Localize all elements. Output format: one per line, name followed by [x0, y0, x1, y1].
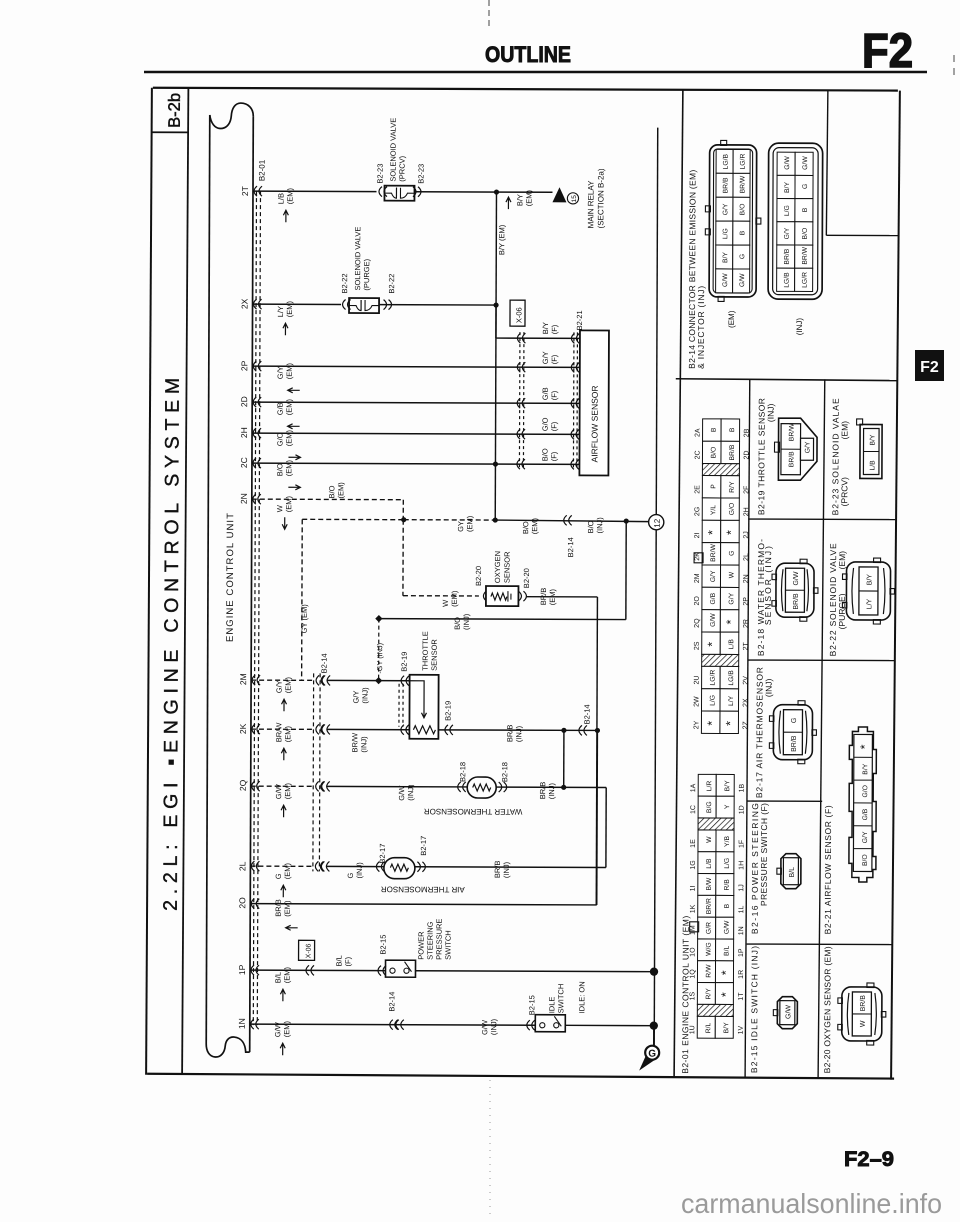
svg-text:2P: 2P: [743, 597, 750, 606]
junctions on main vertical: [650, 967, 658, 975]
svg-text:*: *: [723, 721, 737, 726]
wire main power vertical: [656, 128, 657, 515]
svg-text:OXYGEN: OXYGEN: [493, 551, 502, 583]
svg-text:G: G: [729, 551, 736, 556]
svg-text:W/G: W/G: [706, 942, 713, 956]
connector chevron B2-14: [564, 515, 572, 525]
svg-text:(EM): (EM): [285, 301, 294, 318]
svg-text:(EM): (EM): [283, 725, 292, 742]
svg-text:G/B: G/B: [541, 387, 550, 400]
svg-text:(INJ): (INJ): [361, 687, 370, 704]
wire B/Y (F) branch to airflow sensor: [495, 305, 497, 338]
svg-text:B/O: B/O: [275, 463, 284, 476]
chevron B2-19 on 2M: [401, 676, 409, 686]
svg-text:(F): (F): [550, 324, 559, 334]
svg-text:(PRCV): (PRCV): [398, 155, 407, 181]
svg-text:2M: 2M: [238, 673, 248, 685]
svg-text:B/Y: B/Y: [515, 194, 524, 206]
solenoid valve B2-23 PRCV symbol: [384, 186, 414, 201]
wire BR/B vertical: [596, 597, 597, 905]
svg-text:B/G: B/G: [706, 801, 713, 813]
wire 2Q dashed: [251, 785, 313, 787]
svg-text:*: *: [705, 642, 719, 647]
connector B2-19 boundary dashed lines: [398, 684, 400, 727]
svg-text:B2-23: B2-23: [417, 164, 426, 184]
junction on 2Q: [561, 785, 566, 790]
wire B/Y (EM) to main relay: [414, 191, 552, 194]
svg-text:BR/W: BR/W: [802, 246, 809, 264]
svg-text:B2-21: B2-21: [575, 310, 584, 330]
svg-text:(EM): (EM): [283, 782, 292, 799]
svg-text:(F): (F): [344, 956, 353, 966]
svg-text:G/Y: G/Y: [541, 351, 550, 364]
svg-text:1R: 1R: [738, 970, 745, 979]
chevron B2-15 on 1P: [378, 966, 386, 976]
svg-text:BR/W: BR/W: [710, 543, 717, 561]
svg-text:BR/B: BR/B: [729, 444, 736, 460]
svg-text:(EM): (EM): [450, 590, 459, 607]
chevrons B2-14 on 2Q: [316, 781, 324, 791]
svg-text:B2-14: B2-14: [387, 992, 396, 1012]
svg-text:B/Y: B/Y: [724, 780, 731, 791]
svg-text:G/B: G/B: [710, 592, 717, 604]
chevron and label B2-19 right: [445, 725, 453, 735]
circle 15: [567, 193, 578, 204]
svg-text:MAIN RELAY: MAIN RELAY: [586, 180, 595, 229]
svg-text:B2-20: B2-20: [474, 566, 483, 586]
svg-text:SENSOR: SENSOR: [502, 551, 511, 583]
svg-text:2F: 2F: [743, 486, 750, 494]
wire BR/B link 2K-2Q: [563, 730, 565, 787]
svg-text:BR/W: BR/W: [274, 722, 283, 743]
svg-text:(INJ): (INJ): [359, 736, 368, 753]
connector B2-21 pinout: [849, 727, 877, 882]
svg-text:B/O: B/O: [862, 854, 869, 866]
chevrons B2-14 on 2K: [316, 724, 324, 734]
svg-text:B/Y (EM): B/Y (EM): [497, 224, 506, 255]
svg-text:Y/L: Y/L: [710, 505, 717, 515]
svg-text:BR/W: BR/W: [350, 732, 359, 753]
resistor in water thermosensor: [473, 784, 491, 791]
svg-text:G/W: G/W: [480, 1019, 489, 1035]
svg-text:15: 15: [571, 195, 578, 203]
svg-text:B: B: [729, 427, 736, 432]
circle 12 junction: [649, 515, 664, 530]
svg-text:2O: 2O: [694, 596, 701, 606]
svg-text:B/Y: B/Y: [722, 252, 729, 263]
svg-text:2E: 2E: [694, 485, 701, 494]
svg-text:B2-14: B2-14: [320, 653, 329, 673]
svg-text:12: 12: [653, 518, 662, 527]
svg-text:G/Y: G/Y: [352, 691, 361, 704]
svg-text:LG/R: LG/R: [710, 670, 717, 686]
svg-text:G/Y: G/Y: [710, 570, 717, 582]
svg-text:G/Y: G/Y: [728, 592, 735, 604]
svg-text:*: *: [705, 721, 719, 726]
svg-text:B2-19: B2-19: [400, 652, 409, 672]
wire 2T to solenoid: [253, 190, 376, 192]
wire GY (EM) dashed vertical: [301, 519, 304, 680]
chevron and label B2-18 right: [499, 782, 507, 792]
svg-text:L/G: L/G: [710, 695, 717, 706]
wire B/O to circle 12: [494, 520, 649, 522]
wire 2O: [250, 904, 596, 905]
svg-text:(INJ): (INJ): [547, 783, 556, 800]
svg-text:2A: 2A: [695, 428, 702, 437]
svg-text:LG/R: LG/R: [802, 272, 809, 288]
svg-text:POWER: POWER: [417, 931, 426, 960]
svg-text:1J: 1J: [738, 884, 745, 891]
svg-text:1A: 1A: [690, 783, 697, 792]
wire G/W (INJ): [326, 785, 467, 788]
connector boundary dashed lines at airflow sensor: [518, 332, 521, 470]
chevron and label B2-14 on 2K: [579, 725, 587, 735]
svg-text:WATER THERMOSENSOR: WATER THERMOSENSOR: [424, 807, 523, 816]
svg-text:(EM): (EM): [282, 1020, 291, 1037]
svg-text:1Q: 1Q: [689, 969, 696, 979]
svg-text:(INJ): (INJ): [514, 725, 523, 742]
oxygen sensor B2-20 symbol: [486, 586, 519, 606]
svg-text:GY (EM): GY (EM): [300, 604, 309, 634]
svg-text:G/R: G/R: [706, 922, 713, 934]
svg-text:X-06: X-06: [514, 307, 523, 323]
svg-text:2S: 2S: [694, 641, 701, 650]
junction 2K b: [595, 728, 600, 733]
svg-text:BR/B: BR/B: [722, 177, 729, 193]
svg-text:-GY (INJ): -GY (INJ): [375, 643, 384, 674]
svg-text:2X: 2X: [240, 298, 250, 309]
svg-text:2Q: 2Q: [694, 618, 701, 628]
wire 1N: [250, 1024, 535, 1025]
connector B2-01 pin table 1A-1V with pin numbers: [698, 774, 716, 796]
power steering pressure switch B2-16 symbol: [385, 960, 415, 977]
svg-text:G/W: G/W: [397, 785, 406, 801]
wire 2M dashed: [251, 679, 313, 681]
resistor in air thermosensor: [390, 864, 408, 871]
svg-text:B2-21 AIRFLOW SENSOR (F): B2-21 AIRFLOW SENSOR (F): [823, 805, 833, 934]
connector chevron B2-22 right: [384, 300, 392, 310]
svg-text:B: B: [802, 207, 809, 212]
wire 1P to main vertical: [415, 970, 653, 973]
svg-text:BR/B: BR/B: [538, 782, 547, 800]
svg-text:B/Y: B/Y: [541, 322, 550, 334]
connector B2-18 pinout: [776, 563, 814, 617]
svg-text:1M: 1M: [690, 925, 697, 935]
wire GY (INJ) dashed: [378, 619, 380, 681]
svg-text:1B: 1B: [739, 784, 746, 793]
svg-text:L/B: L/B: [728, 639, 735, 650]
svg-text:BR/B: BR/B: [784, 248, 791, 264]
chevrons B2-14 on 1N: [390, 1020, 398, 1030]
wire B/O (INJ) vertical: [625, 521, 627, 619]
svg-text:B/O: B/O: [586, 520, 595, 533]
svg-text:THROTTLE: THROTTLE: [421, 631, 430, 671]
svg-text:G/Y: G/Y: [276, 366, 285, 379]
svg-text:(INJ): (INJ): [406, 784, 415, 801]
svg-text:G: G: [346, 872, 355, 878]
svg-text:carmanualsonline.info: carmanualsonline.info: [681, 1188, 942, 1219]
svg-text:2Z: 2Z: [742, 720, 749, 729]
svg-text:G/O: G/O: [541, 417, 550, 431]
svg-text:G/W: G/W: [724, 920, 731, 934]
junction diamond 2: [375, 677, 382, 684]
svg-text:LG/R: LG/R: [740, 154, 747, 170]
wire 2X to solenoid: [253, 303, 341, 305]
svg-text:2N: 2N: [743, 574, 750, 583]
svg-text:BR/B: BR/B: [493, 861, 502, 879]
svg-text:1S: 1S: [689, 992, 696, 1001]
svg-text:(SECTION B-2a): (SECTION B-2a): [596, 168, 605, 228]
svg-text:(F): (F): [550, 390, 559, 400]
svg-text:B/Y: B/Y: [862, 763, 869, 774]
svg-text:B2-14: B2-14: [566, 537, 575, 557]
svg-text:L/R: L/R: [706, 781, 713, 792]
svg-text:2Y: 2Y: [693, 720, 700, 729]
svg-text:STEERING: STEERING: [426, 921, 435, 960]
svg-text:B/O: B/O: [521, 521, 530, 534]
svg-text:IDLE: ON: IDLE: ON: [577, 981, 586, 1013]
svg-text:*: *: [858, 744, 872, 749]
svg-text:2T: 2T: [743, 641, 750, 650]
connector B2-23 pinout: [860, 424, 882, 478]
wire W (EM) dashed to oxygen sensor: [402, 520, 404, 596]
svg-text:(EM): (EM): [530, 517, 539, 534]
svg-text:(EM): (EM): [284, 460, 293, 477]
svg-text:G/W: G/W: [710, 613, 717, 627]
svg-text:*: *: [724, 530, 738, 535]
svg-text:BR/B: BR/B: [505, 725, 514, 743]
chevron and label B2-17 left: [376, 862, 384, 872]
svg-text:2B: 2B: [744, 428, 751, 437]
svg-text:(F): (F): [549, 451, 558, 461]
svg-text:SENSOR: SENSOR: [430, 639, 439, 671]
svg-text:B/L: B/L: [724, 946, 731, 956]
svg-text:1P: 1P: [738, 948, 745, 957]
svg-text:SWITCH: SWITCH: [444, 930, 453, 960]
svg-text:(EM): (EM): [285, 399, 294, 416]
chevron X-06 on 1P: [306, 965, 314, 975]
svg-text:LG/B: LG/B: [723, 153, 730, 169]
svg-text:1V: 1V: [738, 1026, 745, 1035]
connector B2-15 pinout: [777, 997, 797, 1029]
svg-text:R/Y: R/Y: [729, 481, 736, 493]
connector chevron B2-23 right: [413, 187, 421, 197]
svg-text:AIR THERMOSENSOR: AIR THERMOSENSOR: [381, 885, 465, 894]
svg-text:F2: F2: [920, 359, 939, 376]
svg-text:B2-22: B2-22: [340, 273, 349, 293]
svg-text:B2-17: B2-17: [378, 844, 387, 864]
svg-text:B2-01: B2-01: [258, 159, 267, 181]
svg-text:B2-19: B2-19: [443, 701, 452, 721]
svg-text:(EM): (EM): [282, 966, 291, 983]
svg-text:(EM): (EM): [284, 676, 293, 693]
svg-text:1G: 1G: [690, 860, 697, 869]
svg-text:G/Y: G/Y: [804, 441, 811, 453]
svg-text:L/Y: L/Y: [866, 598, 873, 609]
solenoid valve B2-22 PURGE symbol: [349, 298, 379, 313]
chevron and label B2-17 right: [417, 862, 425, 872]
svg-text:*: *: [724, 619, 738, 624]
connector B2-14 (EM) pinout table: [709, 145, 757, 297]
svg-text:(EM): (EM): [285, 430, 294, 447]
svg-text:W: W: [441, 599, 450, 607]
svg-text:(INJ): (INJ): [795, 318, 804, 336]
chevron and label B2-18 left: [458, 782, 466, 792]
wire BR/B (EM): [526, 596, 597, 598]
svg-text:1I: 1I: [690, 886, 697, 892]
svg-text:B2-18: B2-18: [458, 762, 467, 782]
svg-text:W: W: [706, 836, 713, 843]
svg-text:B/Y: B/Y: [866, 574, 873, 586]
svg-text:(EM): (EM): [524, 189, 533, 206]
svg-text:(EM): (EM): [285, 188, 294, 205]
wire G (INJ): [326, 865, 384, 867]
svg-text:W: W: [275, 504, 284, 512]
connector B2-14 boundary dashed lines: [312, 673, 315, 871]
svg-text:AIRFLOW SENSOR: AIRFLOW SENSOR: [589, 385, 599, 462]
wire main vertical lower: [654, 530, 656, 1047]
svg-text:1H: 1H: [738, 861, 745, 870]
svg-text:L/G: L/G: [724, 858, 731, 869]
svg-text:(EM): (EM): [727, 310, 736, 328]
svg-text:B2-14: B2-14: [582, 704, 591, 724]
svg-text:BR/R: BR/R: [706, 898, 713, 914]
wire 2K dashed: [251, 728, 313, 730]
svg-text:IDLE: IDLE: [547, 997, 556, 1014]
svg-text:G/Y: G/Y: [722, 203, 729, 215]
wire BR/B link 2Q-2L: [605, 787, 607, 867]
svg-text:2U: 2U: [694, 676, 701, 685]
svg-text:G/Y: G/Y: [275, 680, 284, 693]
svg-text:L/G: L/G: [784, 205, 791, 216]
svg-text:(EM): (EM): [336, 482, 345, 499]
svg-text:L/B: L/B: [706, 858, 713, 869]
svg-text:1U: 1U: [689, 1025, 696, 1034]
svg-text:PRESSURE SWITCH (F): PRESSURE SWITCH (F): [759, 803, 769, 906]
svg-text:2C: 2C: [239, 457, 249, 468]
svg-text:1T: 1T: [738, 992, 745, 1001]
svg-text:G/B: G/B: [276, 402, 285, 415]
svg-text:GY: GY: [456, 521, 465, 532]
svg-text:G/O: G/O: [276, 432, 285, 446]
connector B2-19 throttle sensor pinout: [778, 418, 817, 480]
svg-text:(F): (F): [550, 421, 559, 431]
wire G/Y (INJ): [327, 679, 410, 681]
water thermosensor B2-18 symbol: [467, 777, 496, 798]
svg-text:B/L: B/L: [789, 867, 796, 878]
svg-text:1C: 1C: [690, 805, 697, 814]
svg-text:2L: 2L: [237, 861, 247, 871]
svg-text:BR/B: BR/B: [791, 735, 798, 752]
svg-text:1O: 1O: [690, 947, 697, 957]
svg-text:B2-22: B2-22: [387, 274, 396, 294]
svg-text:(EM): (EM): [840, 421, 850, 440]
svg-text:B/O: B/O: [739, 204, 746, 216]
ground G symbol: [639, 1053, 655, 1071]
svg-text:X-06: X-06: [306, 943, 313, 958]
svg-text:2Q: 2Q: [238, 779, 248, 791]
wire B/Y (EM) vertical: [495, 192, 496, 520]
chevrons B2-14 on 2M: [316, 675, 324, 685]
wire 1P: [250, 969, 385, 972]
connector B2-14 (INJ) pinout table: [768, 143, 823, 299]
svg-text:LG/B: LG/B: [728, 670, 735, 686]
wire B/O (INJ) horizontal: [379, 618, 626, 621]
svg-text:*: *: [719, 970, 733, 975]
svg-text:L/Y: L/Y: [276, 306, 285, 317]
svg-text:G/Y: G/Y: [784, 227, 791, 239]
svg-text:G/W: G/W: [722, 273, 729, 287]
svg-text:G/Y: G/Y: [862, 831, 869, 843]
wire 2L dashed: [250, 865, 312, 867]
svg-text:B/O: B/O: [327, 485, 336, 498]
svg-text:(F): (F): [550, 354, 559, 364]
svg-text:G/B: G/B: [862, 808, 869, 820]
connector B2-01 pin table 2A-2Z with pin numbers: [703, 419, 722, 441]
svg-text:G: G: [791, 718, 798, 723]
svg-text:BR/B: BR/B: [793, 593, 800, 610]
svg-text:B2-20 OXYGEN SENSOR (EM): B2-20 OXYGEN SENSOR (EM): [822, 946, 832, 1073]
svg-text:G: G: [802, 184, 809, 189]
wire BR/B vertical to 2O: [596, 730, 599, 904]
svg-text:F2: F2: [862, 25, 913, 78]
svg-text:2M: 2M: [694, 573, 701, 583]
svg-text:(PURGE): (PURGE): [362, 258, 371, 290]
svg-text:2D: 2D: [743, 451, 750, 460]
svg-text:1D: 1D: [739, 805, 746, 814]
svg-text:W: W: [860, 1020, 867, 1027]
svg-text:(INJ): (INJ): [462, 613, 471, 630]
svg-text:SWITCH: SWITCH: [556, 984, 565, 1014]
svg-text:B/L: B/L: [273, 972, 282, 983]
svg-text:F2–9: F2–9: [844, 1148, 894, 1171]
svg-text:(INJ): (INJ): [489, 1018, 498, 1035]
svg-text:1N: 1N: [738, 926, 745, 935]
svg-text:Y: Y: [724, 804, 731, 809]
svg-text:B/L: B/L: [335, 955, 344, 966]
svg-text:(EM): (EM): [283, 900, 292, 917]
ECU engine control unit outline (partial) with bus: [206, 115, 210, 1044]
resistor in throttle sensor: [413, 726, 435, 734]
connector B2-01 boundary dashed lines: [253, 191, 256, 1025]
wire to ground: [653, 1026, 655, 1047]
svg-text:R/W: R/W: [705, 964, 712, 978]
svg-text:G/W: G/W: [784, 156, 791, 170]
svg-text:SOLENOID VALVE: SOLENOID VALVE: [353, 227, 362, 291]
svg-text:G/W: G/W: [785, 1005, 792, 1019]
svg-text:B2-15 IDLE SWITCH (INJ): B2-15 IDLE SWITCH (INJ): [749, 946, 759, 1073]
connector B2-22 pinout: [846, 562, 890, 620]
svg-text:L/B: L/B: [276, 193, 285, 204]
svg-text:B/W: B/W: [706, 877, 713, 890]
svg-text:G: G: [274, 873, 283, 879]
idle switch B2-15 symbol: [535, 1015, 565, 1032]
svg-text:BR/B: BR/B: [274, 899, 283, 917]
svg-text:L/B: L/B: [869, 460, 876, 471]
svg-text:(PURGE): (PURGE): [837, 593, 847, 629]
svg-text:2O: 2O: [237, 897, 247, 909]
svg-text:BR/B: BR/B: [860, 995, 867, 1012]
svg-text:2H: 2H: [743, 507, 750, 516]
junction 2K a: [561, 728, 566, 733]
svg-text:B/O: B/O: [540, 448, 549, 461]
svg-text:(INJ): (INJ): [764, 679, 774, 698]
node X-06: [510, 300, 525, 326]
svg-text:B-2b: B-2b: [166, 93, 184, 128]
svg-text:G/W: G/W: [739, 273, 746, 287]
svg-text:(INJ): (INJ): [502, 861, 511, 878]
svg-text:1L: 1L: [738, 906, 745, 914]
